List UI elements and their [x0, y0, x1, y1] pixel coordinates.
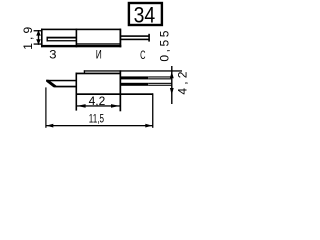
side view: cap top line	[84, 70, 182, 71]
dimension 11,5: arrowhead left	[46, 124, 53, 128]
top view: lead С end cap	[148, 34, 150, 42]
side view: body left edge and 4,2 extension	[76, 73, 78, 111]
top view: lead tab left edge	[41, 29, 43, 48]
side view: lead З bottom line	[54, 86, 76, 88]
svg-text:0,55: 0,55	[158, 30, 172, 61]
side view: lead З top line	[46, 80, 75, 82]
dimension 1,9: extension line bottom	[34, 43, 43, 44]
top view: slot left edge	[47, 37, 48, 42]
side view: lead З bevel tip	[46, 80, 56, 88]
top view: hidden edge line inside body	[76, 43, 120, 44]
side view: cap left step	[84, 70, 85, 73]
svg-text:1,9: 1,9	[21, 26, 35, 49]
dimension 11,5: arrowhead right	[145, 124, 152, 128]
svg-text:11,5: 11,5	[89, 112, 104, 126]
side view: lead B top thin line	[148, 83, 171, 84]
side view: lead A top thin line	[148, 76, 171, 77]
top view: package outline top edge	[41, 29, 121, 31]
dimension 4,2 vertical: arrowhead up	[170, 71, 174, 78]
svg-text:4,2: 4,2	[89, 94, 106, 108]
svg-text:34: 34	[134, 2, 156, 27]
svg-text:И: И	[96, 48, 102, 62]
side view: lead B bottom thin line	[148, 85, 171, 86]
dimension 1,9: arrowhead up	[36, 30, 41, 35]
dimension 4,2 horizontal: arrowhead left	[77, 104, 86, 108]
dimension 11,5: right extension line	[152, 93, 153, 128]
side view: body bottom edge continuing right	[76, 93, 153, 95]
dimension 1,9: extension line top	[34, 30, 43, 31]
top view: body right edge	[120, 29, 122, 48]
side view: lead B solid segment	[121, 83, 148, 86]
side view: body right edge and 4,2 extension	[120, 70, 122, 111]
dimension 4,2 horizontal: dimension line	[77, 105, 120, 106]
dimension 4,2 vertical: dimension line	[171, 66, 172, 104]
dimension 1,9: arrowhead down	[36, 39, 41, 44]
top view: package bottom edge (thick)	[41, 45, 121, 47]
top view: lead С bottom line	[121, 39, 149, 41]
dimension 4,2 horizontal: arrowhead right	[111, 104, 120, 108]
top view: body left edge	[76, 29, 78, 48]
dimension 4,2 vertical: arrowhead down	[170, 88, 174, 95]
dimension 11,5: left extension line	[45, 87, 46, 127]
figure number box 34	[129, 2, 162, 27]
svg-text:4,2: 4,2	[175, 71, 189, 94]
top view: lead С top line	[121, 35, 149, 37]
top view: inner slot top line of lead З	[47, 37, 77, 39]
side view: lead A bottom thin line	[148, 78, 171, 79]
dimension 1,9: dimension line	[38, 30, 39, 45]
side view: body top edge	[76, 73, 122, 75]
side view: lead A solid segment	[121, 76, 148, 79]
svg-text:С: С	[140, 48, 146, 62]
dimension 11,5: dimension line	[46, 125, 153, 126]
top view: inner slot bottom line of lead З	[47, 40, 77, 41]
svg-text:З: З	[49, 48, 56, 62]
